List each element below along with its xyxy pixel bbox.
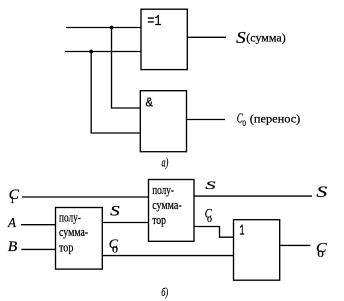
- svg-text:(перенос): (перенос): [250, 112, 301, 126]
- svg-text:а): а): [162, 156, 169, 170]
- svg-text:A: A: [7, 216, 16, 231]
- svg-text:0: 0: [317, 249, 324, 259]
- svg-text:&: &: [146, 96, 154, 112]
- svg-text:B: B: [8, 239, 18, 255]
- svg-text:0: 0: [242, 118, 246, 128]
- svg-text:тор: тор: [59, 241, 73, 255]
- svg-text:S: S: [236, 28, 246, 47]
- svg-text:=1: =1: [147, 14, 161, 30]
- svg-text:б): б): [161, 287, 168, 299]
- svg-text:S: S: [205, 180, 216, 192]
- svg-text:S: S: [110, 203, 120, 219]
- svg-text:1: 1: [10, 195, 15, 205]
- svg-text:S: S: [316, 184, 327, 201]
- svg-text:0: 0: [112, 244, 119, 254]
- svg-text:сумма-: сумма-: [152, 198, 182, 212]
- svg-text:полу-: полу-: [59, 210, 81, 224]
- svg-text:тор: тор: [152, 213, 166, 227]
- svg-text:(сумма): (сумма): [246, 31, 285, 45]
- svg-text:полу-: полу-: [152, 183, 174, 197]
- svg-text:1: 1: [239, 224, 244, 240]
- svg-text:0: 0: [207, 214, 212, 224]
- svg-text:сумма-: сумма-: [59, 225, 88, 239]
